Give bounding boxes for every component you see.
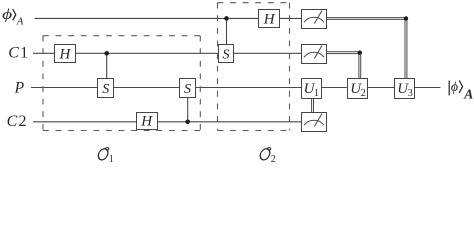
- wire control vertical C2 to S on P: [187, 97, 189, 122]
- svg-text:3: 3: [408, 88, 413, 99]
- classical double wire row1 horizontal: [327, 18, 407, 20]
- wire C1 (row 2): [33, 52, 302, 54]
- measurement meter C1: [302, 45, 327, 64]
- control dot row1: [224, 16, 229, 21]
- control dot C2: [185, 120, 190, 125]
- svg-text:C1: C1: [8, 45, 28, 62]
- classical double wire C2 meter to U1: [312, 99, 314, 113]
- svg-text:H: H: [58, 46, 71, 62]
- svg-text:2: 2: [361, 88, 366, 99]
- wire C2 (row 4): [33, 121, 302, 123]
- gate H on C1: [55, 45, 76, 63]
- wire P (row 3): [31, 87, 441, 89]
- gate S on C1 (in O2): [219, 45, 234, 63]
- svg-text:P: P: [14, 80, 25, 97]
- svg-text:2: 2: [271, 154, 276, 163]
- svg-text:ϕ: ϕ: [2, 7, 13, 23]
- classical double wire row1 vertical to U3: [405, 18, 407, 78]
- svg-text:S: S: [223, 48, 230, 63]
- label O1 script: [97, 147, 114, 165]
- classical double wire C1 vertical to U2: [359, 52, 361, 78]
- gate H on C2: [137, 113, 158, 130]
- gate U2: [348, 79, 368, 100]
- gate H on row1 (in O2): [259, 10, 280, 28]
- svg-text:H: H: [140, 114, 153, 130]
- svg-text:H: H: [263, 11, 276, 27]
- classical double wire C1 horizontal: [327, 52, 361, 54]
- svg-text:1: 1: [314, 88, 319, 99]
- label O2 script: [259, 147, 276, 165]
- svg-text:A: A: [463, 87, 473, 102]
- svg-text:S: S: [184, 82, 191, 97]
- wire control vertical row1 to S on C1: [226, 18, 228, 45]
- svg-text:S: S: [102, 82, 109, 97]
- label phi>_A input: [2, 7, 24, 27]
- classical corner dot C1: [358, 51, 362, 55]
- measurement meter C2: [302, 113, 327, 132]
- dashed box O2: [218, 3, 290, 131]
- wire |phi>_A (row 1): [35, 17, 302, 19]
- gate S on P (first): [98, 79, 114, 98]
- gate S on P (second): [180, 79, 196, 98]
- dashed box O1: [43, 36, 200, 131]
- gate U1: [302, 79, 322, 100]
- svg-text:ϕ: ϕ: [451, 79, 458, 94]
- gate U3: [395, 79, 415, 100]
- label |phi>_A output: [449, 79, 473, 102]
- svg-text:C2: C2: [7, 113, 27, 130]
- control dot C1: [104, 51, 109, 56]
- svg-text:A: A: [16, 16, 24, 27]
- svg-text:1: 1: [109, 154, 114, 163]
- measurement meter row1: [302, 10, 327, 29]
- wire control vertical C1 to S on P: [106, 53, 108, 79]
- classical corner dot row1: [404, 16, 408, 20]
